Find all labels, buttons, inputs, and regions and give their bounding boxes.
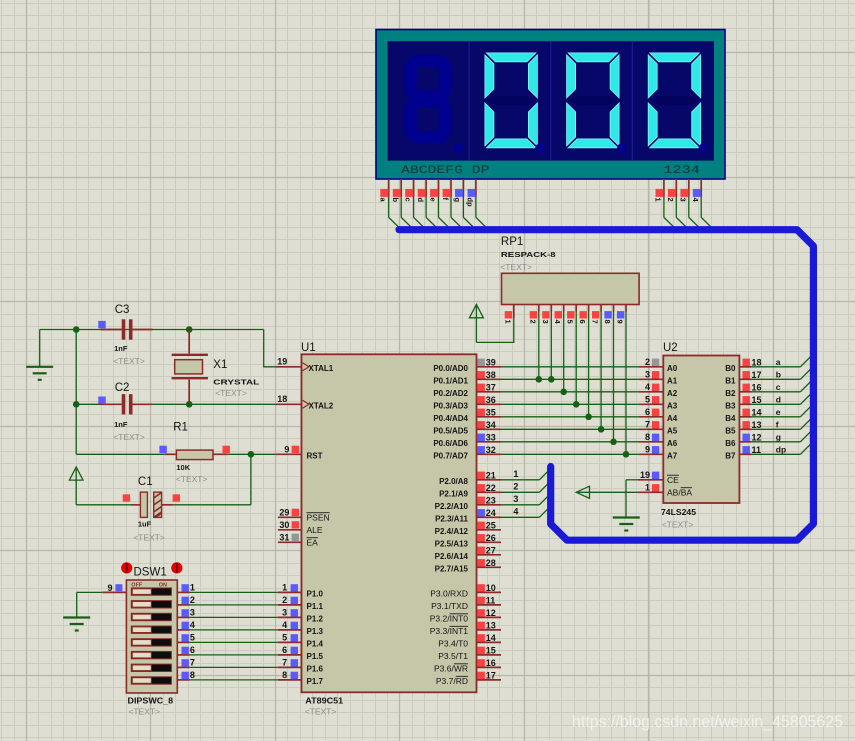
svg-text:P0.5/AD5: P0.5/AD5	[433, 426, 468, 435]
svg-text:7: 7	[190, 658, 195, 668]
capacitor C1 (polarized)	[76, 476, 251, 543]
svg-text:7: 7	[645, 420, 650, 430]
buffer U2 74LS245 body	[661, 342, 739, 530]
wire P0.6 to U2 A6	[501, 441, 639, 443]
svg-text:R1: R1	[173, 422, 188, 434]
svg-text:2: 2	[282, 595, 287, 605]
U2 pin 8 A6	[639, 432, 678, 448]
svg-text:1234: 1234	[663, 165, 700, 177]
display digit 2 showing 0	[485, 53, 545, 153]
RP1 pin 5 pull-up wire	[566, 305, 580, 408]
svg-text:19: 19	[277, 357, 287, 367]
display digit 3 showing 0	[567, 53, 627, 153]
U1 pin 11 P3.1	[431, 595, 501, 611]
wire RP1 pin 1 to power	[476, 305, 513, 343]
U1 pin 28 P2.7/A15	[435, 558, 501, 574]
svg-text:<TEXT>: <TEXT>	[133, 533, 165, 543]
U2 pin 15 B3 to bus (net d)	[725, 391, 813, 410]
U2 pin 12 B6 to bus (net g)	[725, 429, 813, 448]
svg-text:1uF: 1uF	[138, 520, 152, 529]
svg-text:8: 8	[190, 670, 195, 680]
svg-text:dp: dp	[466, 198, 475, 208]
wire DSW1 pin 7 to U1 P1.6	[177, 658, 278, 668]
svg-text:f: f	[776, 419, 779, 429]
svg-text:3: 3	[645, 370, 650, 380]
wire DSW1 pin 5 to U1 P1.4	[177, 633, 278, 643]
wire DSW1 pin 1 to U1 P1.0	[177, 583, 278, 593]
svg-text:c: c	[776, 382, 781, 392]
U2 pin 3 A1	[639, 370, 678, 386]
svg-text:2: 2	[528, 320, 537, 324]
resistor R1	[76, 422, 276, 485]
svg-text:27: 27	[486, 545, 496, 555]
wire C2 row to XTAL2	[76, 403, 276, 405]
U1 pin 39 P0.0/AD0	[433, 357, 501, 373]
display digit pin 1	[654, 179, 677, 230]
U2 pin 17 B1 to bus (net b)	[725, 366, 813, 385]
U1 pin 16 P3.6	[434, 658, 501, 674]
svg-text:26: 26	[486, 533, 496, 543]
wire DSW1 pin 3 to U1 P1.2	[177, 608, 278, 618]
U2 pin 13 B5 to bus (net f)	[725, 416, 813, 435]
svg-text:P1.4: P1.4	[307, 639, 324, 648]
U2 pin 6 A4	[639, 407, 678, 423]
svg-text:https://blog.csdn.net/weixin_4: https://blog.csdn.net/weixin_45805625	[572, 713, 843, 731]
svg-text:18: 18	[277, 394, 287, 404]
display digit pin 3	[679, 179, 702, 230]
U2 pin 7 A5	[639, 420, 678, 436]
svg-text:19: 19	[640, 470, 650, 480]
svg-text:3: 3	[190, 608, 195, 618]
node: C3 row junction dots	[73, 326, 193, 333]
svg-text:PSEN: PSEN	[307, 512, 330, 522]
svg-text:P3.6/WR: P3.6/WR	[434, 663, 468, 673]
svg-text:P0.1/AD1: P0.1/AD1	[433, 376, 468, 385]
svg-text:39: 39	[486, 357, 496, 367]
svg-text:P1.2: P1.2	[307, 614, 324, 623]
svg-text:9: 9	[107, 583, 112, 593]
svg-text:1: 1	[282, 583, 287, 593]
svg-text:b: b	[391, 198, 400, 203]
svg-text:g: g	[776, 432, 781, 442]
U1 pin 34 P0.5/AD5	[433, 420, 501, 436]
svg-text:B1: B1	[725, 376, 736, 385]
svg-text:3: 3	[679, 198, 688, 202]
svg-text:RST: RST	[307, 451, 323, 460]
U1 pin 23 P2.2/A10	[435, 495, 501, 511]
svg-text:14: 14	[486, 633, 496, 643]
display digit 4 showing 0	[648, 53, 708, 153]
svg-text:18: 18	[752, 357, 762, 367]
U2 pin 1 AB/BA	[638, 483, 692, 498]
U1 pin 24 P2.3/A11	[435, 508, 501, 524]
svg-text:5: 5	[566, 320, 575, 324]
microcontroller U1 AT89C51 body	[301, 342, 477, 717]
svg-text:A1: A1	[667, 376, 678, 385]
svg-text:8: 8	[603, 320, 612, 324]
U1 pin 19 XTAL1	[276, 357, 334, 373]
power arrow (near RP1)	[469, 304, 483, 342]
U1 pin 14 P3.4	[438, 633, 501, 649]
display segment pin e	[428, 179, 451, 230]
display digit pin 4	[691, 179, 714, 230]
svg-text:6: 6	[645, 407, 650, 417]
display digit pin 2	[666, 179, 689, 230]
svg-text:28: 28	[486, 558, 496, 568]
wire C3 to C2 vertical	[75, 330, 77, 405]
svg-text:<TEXT>: <TEXT>	[128, 707, 160, 717]
svg-text:P0.2/AD2: P0.2/AD2	[433, 389, 468, 398]
svg-text:XTAL2: XTAL2	[309, 401, 334, 410]
svg-text:<TEXT>: <TEXT>	[500, 262, 532, 272]
svg-text:21: 21	[486, 470, 496, 480]
svg-text:P0.0/AD0: P0.0/AD0	[433, 364, 468, 373]
svg-text:ABCDEFG DP: ABCDEFG DP	[401, 165, 490, 177]
U2 pin 5 A3	[639, 395, 678, 411]
display segment pin c	[403, 179, 426, 230]
svg-text:1: 1	[513, 469, 518, 479]
U1 pin 5 P1.4	[278, 633, 324, 649]
U1 pin 10 P3.0	[430, 583, 501, 599]
svg-text:e: e	[428, 198, 437, 202]
svg-text:3: 3	[282, 608, 287, 618]
wire P0.2 to U2 A2	[501, 391, 639, 393]
svg-text:25: 25	[486, 520, 496, 530]
svg-text:B0: B0	[725, 364, 736, 373]
svg-text:d: d	[416, 198, 425, 203]
svg-text:5: 5	[645, 395, 650, 405]
svg-text:P0.3/AD3: P0.3/AD3	[433, 401, 468, 410]
svg-text:P0.4/AD4: P0.4/AD4	[433, 414, 468, 423]
U2 pin 2 A0	[639, 357, 678, 373]
U1 pin 13 P3.3	[430, 620, 501, 636]
svg-text:X1: X1	[213, 359, 227, 371]
wire P0.5 to U2 A5	[501, 428, 639, 430]
svg-text:1: 1	[190, 583, 195, 593]
ground (left of C3)	[26, 330, 53, 380]
U1 pin 8 P1.7	[278, 670, 324, 686]
capacitor C3	[98, 304, 152, 366]
svg-text:CRYSTAL: CRYSTAL	[213, 378, 260, 387]
U1 pin 12 P3.2	[430, 608, 501, 624]
svg-text:ALE: ALE	[307, 525, 323, 535]
svg-text:15: 15	[752, 395, 762, 405]
svg-text:A4: A4	[667, 414, 678, 423]
wire P2.2 to bus (net 3)	[501, 494, 551, 505]
svg-text:P3.5/T1: P3.5/T1	[438, 651, 468, 661]
DSW1 red marker left	[121, 562, 132, 573]
svg-text:<TEXT>: <TEXT>	[305, 707, 337, 717]
svg-text:17: 17	[752, 370, 762, 380]
crystal X1	[172, 330, 260, 405]
svg-text:8: 8	[645, 432, 650, 442]
svg-text:<TEXT>: <TEXT>	[176, 474, 208, 484]
svg-text:22: 22	[486, 483, 496, 493]
svg-text:2: 2	[666, 198, 675, 202]
svg-text:A7: A7	[667, 451, 678, 460]
svg-text:8: 8	[282, 670, 287, 680]
DSW1 labels	[128, 567, 174, 717]
svg-text:A3: A3	[667, 401, 678, 410]
RP1 pin 4 pull-up wire	[553, 305, 567, 396]
U2 pin 11 B7 to bus (net dp)	[725, 441, 813, 460]
U2 pin 18 B0 to bus (net a)	[725, 354, 813, 373]
U1 pin 25 P2.4/A12	[435, 520, 501, 536]
svg-text:B6: B6	[725, 439, 736, 448]
wire U2 CE and AB/BA to ground	[578, 480, 638, 518]
svg-text:30: 30	[279, 520, 289, 530]
svg-text:<TEXT>: <TEXT>	[113, 356, 145, 366]
svg-text:4: 4	[282, 620, 287, 630]
svg-text:1nF: 1nF	[114, 344, 128, 353]
display segment pin a	[379, 179, 402, 230]
svg-text:P2.2/A10: P2.2/A10	[435, 502, 469, 511]
svg-text:2: 2	[513, 482, 518, 492]
svg-text:EA: EA	[307, 537, 319, 547]
U1 pin 4 P1.3	[278, 620, 324, 636]
svg-text:dp: dp	[776, 444, 786, 454]
svg-text:P1.1: P1.1	[307, 602, 324, 611]
svg-text:7: 7	[282, 658, 287, 668]
U1 pin 38 P0.1/AD1	[433, 370, 501, 386]
svg-text:A5: A5	[667, 426, 678, 435]
wire R1 junction to C1 row	[250, 454, 252, 505]
svg-text:P1.6: P1.6	[307, 664, 324, 673]
U1 pin 18 XTAL2	[276, 394, 334, 410]
svg-text:3: 3	[513, 494, 518, 504]
svg-text:34: 34	[486, 420, 496, 430]
U1 pin 6 P1.5	[278, 645, 324, 661]
svg-text:P1.3: P1.3	[307, 627, 324, 636]
svg-text:31: 31	[279, 533, 289, 543]
svg-text:P2.3/A11: P2.3/A11	[435, 514, 468, 523]
svg-text:4: 4	[645, 382, 650, 392]
svg-text:P2.4/A12: P2.4/A12	[435, 527, 469, 536]
U1 pin 26 P2.5/A13	[435, 533, 501, 549]
display segment pin d	[416, 179, 439, 230]
dip switch DSW1	[126, 580, 177, 693]
svg-text:P3.2/INT0: P3.2/INT0	[430, 613, 469, 623]
7-segment display body	[376, 30, 725, 180]
wire P0.0 to U2 A0	[501, 366, 639, 368]
svg-text:4: 4	[513, 507, 518, 517]
svg-text:P2.6/A14: P2.6/A14	[435, 552, 469, 561]
svg-text:10K: 10K	[176, 463, 190, 472]
svg-text:B7: B7	[725, 451, 736, 460]
resistor pack RP1	[500, 236, 639, 305]
svg-text:<TEXT>: <TEXT>	[662, 520, 694, 530]
U1 pin 32 P0.7/AD7	[433, 445, 501, 461]
svg-text:DSW1: DSW1	[134, 567, 167, 579]
U1 pin 30 ALE	[278, 520, 323, 535]
svg-text:P1.7: P1.7	[307, 677, 324, 686]
RP1 pin 3 pull-up wire	[541, 305, 555, 383]
U1 pin 3 P1.2	[278, 608, 324, 624]
svg-text:9: 9	[616, 320, 625, 324]
svg-text:5: 5	[190, 633, 195, 643]
RP1 pin 9 pull-up wire	[616, 305, 630, 458]
svg-text:P1.5: P1.5	[307, 652, 324, 661]
svg-text:1nF: 1nF	[114, 420, 128, 429]
svg-text:24: 24	[486, 508, 496, 518]
display segment pin g	[453, 179, 476, 230]
display segment pin f	[441, 179, 464, 230]
svg-text:AB/BA: AB/BA	[667, 487, 692, 497]
svg-text:B3: B3	[725, 401, 736, 410]
DSW1 red marker right	[171, 562, 182, 573]
U1 pin 17 P3.7	[436, 670, 501, 686]
svg-text:14: 14	[752, 407, 762, 417]
wire DSW1 pin 4 to U1 P1.3	[177, 620, 278, 630]
svg-text:6: 6	[578, 320, 587, 324]
power arrow left (AB/BA)	[576, 486, 589, 498]
svg-text:P0.6/AD6: P0.6/AD6	[433, 439, 468, 448]
svg-text:13: 13	[752, 420, 762, 430]
node: R1 right junction dot	[248, 451, 255, 458]
U1 pin 33 P0.6/AD6	[433, 432, 501, 448]
svg-text:5: 5	[282, 633, 287, 643]
U1 pin 21 P2.0/A8	[439, 470, 501, 486]
svg-text:6: 6	[282, 645, 287, 655]
node: C2 row junction dots	[73, 401, 193, 408]
wire DSW1 pin 2 to U1 P1.1	[177, 595, 278, 605]
RP1 pin 2 pull-up wire	[528, 305, 542, 383]
svg-text:23: 23	[486, 495, 496, 505]
svg-text:16: 16	[486, 658, 496, 668]
svg-text:RP1: RP1	[501, 236, 523, 248]
svg-text:1: 1	[645, 483, 650, 493]
svg-text:A2: A2	[667, 389, 678, 398]
U2 pin 16 B2 to bus (net c)	[725, 379, 813, 398]
svg-text:P3.0/RXD: P3.0/RXD	[430, 588, 468, 598]
svg-text:P2.7/A15: P2.7/A15	[435, 564, 469, 573]
svg-text:C3: C3	[115, 304, 130, 316]
svg-text:11: 11	[486, 595, 496, 605]
svg-text:c: c	[403, 198, 412, 202]
wire P2.0 to bus (net 1)	[501, 469, 551, 480]
svg-text:15: 15	[486, 645, 496, 655]
svg-text:3: 3	[541, 320, 550, 324]
wire C2 to R1 row vertical	[75, 404, 77, 454]
svg-text:B4: B4	[725, 414, 736, 423]
svg-text:12: 12	[486, 608, 496, 618]
bus (blue)	[399, 230, 813, 541]
svg-text:P1.0: P1.0	[307, 589, 324, 598]
svg-text:P2.5/A13: P2.5/A13	[435, 539, 469, 548]
svg-text:d: d	[776, 394, 781, 404]
svg-text:b: b	[776, 369, 781, 379]
svg-text:<TEXT>: <TEXT>	[215, 388, 247, 398]
RP1 pin 6 pull-up wire	[578, 305, 592, 421]
svg-text:7: 7	[591, 320, 600, 324]
svg-text:A6: A6	[667, 439, 678, 448]
wire P0.1 to U2 A1	[501, 378, 639, 380]
wire P2.1 to bus (net 2)	[501, 481, 551, 492]
U2 pin 4 A2	[639, 382, 678, 398]
U2 pin 14 B4 to bus (net e)	[725, 404, 813, 423]
U1 pin 15 P3.5	[438, 645, 501, 661]
svg-text:10: 10	[486, 583, 496, 593]
U1 pin 2 P1.1	[278, 595, 324, 611]
svg-text:g: g	[453, 198, 462, 203]
svg-text:A0: A0	[667, 364, 678, 373]
svg-text:6: 6	[190, 645, 195, 655]
svg-text:a: a	[776, 357, 781, 367]
svg-text:DIPSWC_8: DIPSWC_8	[128, 697, 174, 706]
svg-text:12: 12	[752, 432, 762, 442]
U1 pin 29 PSEN	[278, 508, 330, 523]
svg-text:2: 2	[645, 357, 650, 367]
wire P0.7 to U2 A7	[501, 453, 639, 455]
wire C3 row to XTAL1	[40, 330, 276, 367]
U1 pin 27 P2.6/A14	[435, 545, 501, 561]
svg-text:32: 32	[486, 445, 496, 455]
svg-text:C2: C2	[115, 382, 130, 394]
wire DSW1 pin 8 to U1 P1.7	[177, 670, 278, 680]
svg-text:16: 16	[752, 382, 762, 392]
svg-text:37: 37	[486, 382, 496, 392]
ground (below U2)	[613, 518, 640, 531]
svg-text:U1: U1	[301, 342, 316, 354]
display segment pin b	[391, 179, 414, 230]
svg-text:CE: CE	[667, 475, 679, 485]
svg-text:74LS245: 74LS245	[661, 508, 697, 517]
U2 pin 9 A7	[639, 445, 678, 461]
svg-text:P3.7/RD: P3.7/RD	[436, 676, 468, 686]
RP1 pin 8 pull-up wire	[603, 305, 617, 446]
svg-text:P3.4/T0: P3.4/T0	[438, 638, 468, 648]
svg-text:B2: B2	[725, 389, 736, 398]
svg-text:38: 38	[486, 370, 496, 380]
svg-text:e: e	[776, 407, 781, 417]
svg-text:11: 11	[752, 445, 762, 455]
U1 pin 37 P0.2/AD2	[433, 382, 501, 398]
svg-text:1: 1	[503, 320, 512, 324]
svg-text:B5: B5	[725, 426, 736, 435]
wire P0.4 to U2 A4	[501, 416, 639, 418]
svg-text:13: 13	[486, 620, 496, 630]
U1 pin 35 P0.4/AD4	[433, 407, 501, 423]
U1 pin 31 EA	[278, 533, 318, 548]
U1 pin 1 P1.0	[278, 583, 324, 599]
svg-text:1: 1	[654, 198, 663, 202]
svg-text:17: 17	[486, 670, 496, 680]
svg-text:P2.1/A9: P2.1/A9	[439, 489, 468, 498]
RP1 pin 7 pull-up wire	[591, 305, 605, 433]
DSW1 pin 9 wire and ground	[63, 583, 126, 631]
svg-text:2: 2	[190, 595, 195, 605]
svg-text:P2.0/A8: P2.0/A8	[439, 477, 468, 486]
U1 pin 7 P1.6	[278, 658, 324, 674]
capacitor C2	[98, 382, 152, 442]
display digit 1 (off)	[411, 61, 463, 153]
wire P2.3 to bus (net 4)	[501, 506, 551, 517]
display segment pin dp	[466, 179, 489, 230]
wire P0.3 to U2 A3	[501, 403, 639, 405]
svg-text:P0.7/AD7: P0.7/AD7	[433, 451, 468, 460]
svg-text:XTAL1: XTAL1	[309, 364, 334, 373]
svg-text:P3.3/INT1: P3.3/INT1	[430, 626, 469, 636]
svg-text:<TEXT>: <TEXT>	[113, 432, 145, 442]
svg-text:9: 9	[645, 445, 650, 455]
svg-text:35: 35	[486, 407, 496, 417]
U1 pin 22 P2.1/A9	[439, 483, 501, 499]
svg-text:AT89C51: AT89C51	[305, 697, 344, 706]
U1 pin 9 RST	[276, 445, 323, 461]
U1 pin 36 P0.3/AD3	[433, 395, 501, 411]
svg-text:9: 9	[284, 445, 289, 455]
svg-text:4: 4	[190, 620, 195, 630]
